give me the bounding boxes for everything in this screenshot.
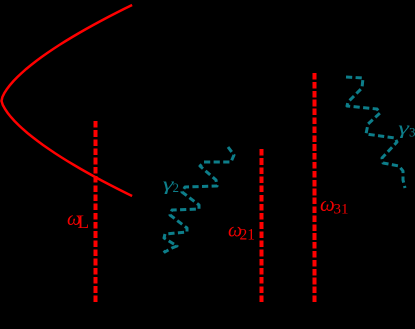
label gamma3	[398, 118, 415, 139]
photon zigzag gamma3	[346, 77, 405, 188]
svg-text:3: 3	[409, 125, 415, 140]
wire omega_L dashed transition line	[94, 121, 98, 302]
label omega_21	[228, 220, 255, 244]
svg-text:21: 21	[240, 227, 256, 244]
label omega_31	[320, 192, 349, 218]
svg-text:2: 2	[173, 180, 180, 195]
svg-text:L: L	[78, 212, 90, 233]
svg-text:31: 31	[334, 202, 349, 218]
wire omega_31 dashed transition line	[312, 73, 316, 302]
wire omega_21 dashed transition line	[260, 149, 264, 302]
laser pulse envelope curve	[2, 5, 133, 196]
label gamma2	[163, 174, 179, 195]
label omega_L	[67, 208, 89, 233]
photon zigzag gamma2	[164, 147, 234, 253]
photon zigzag gamma2 end dot	[164, 251, 166, 253]
